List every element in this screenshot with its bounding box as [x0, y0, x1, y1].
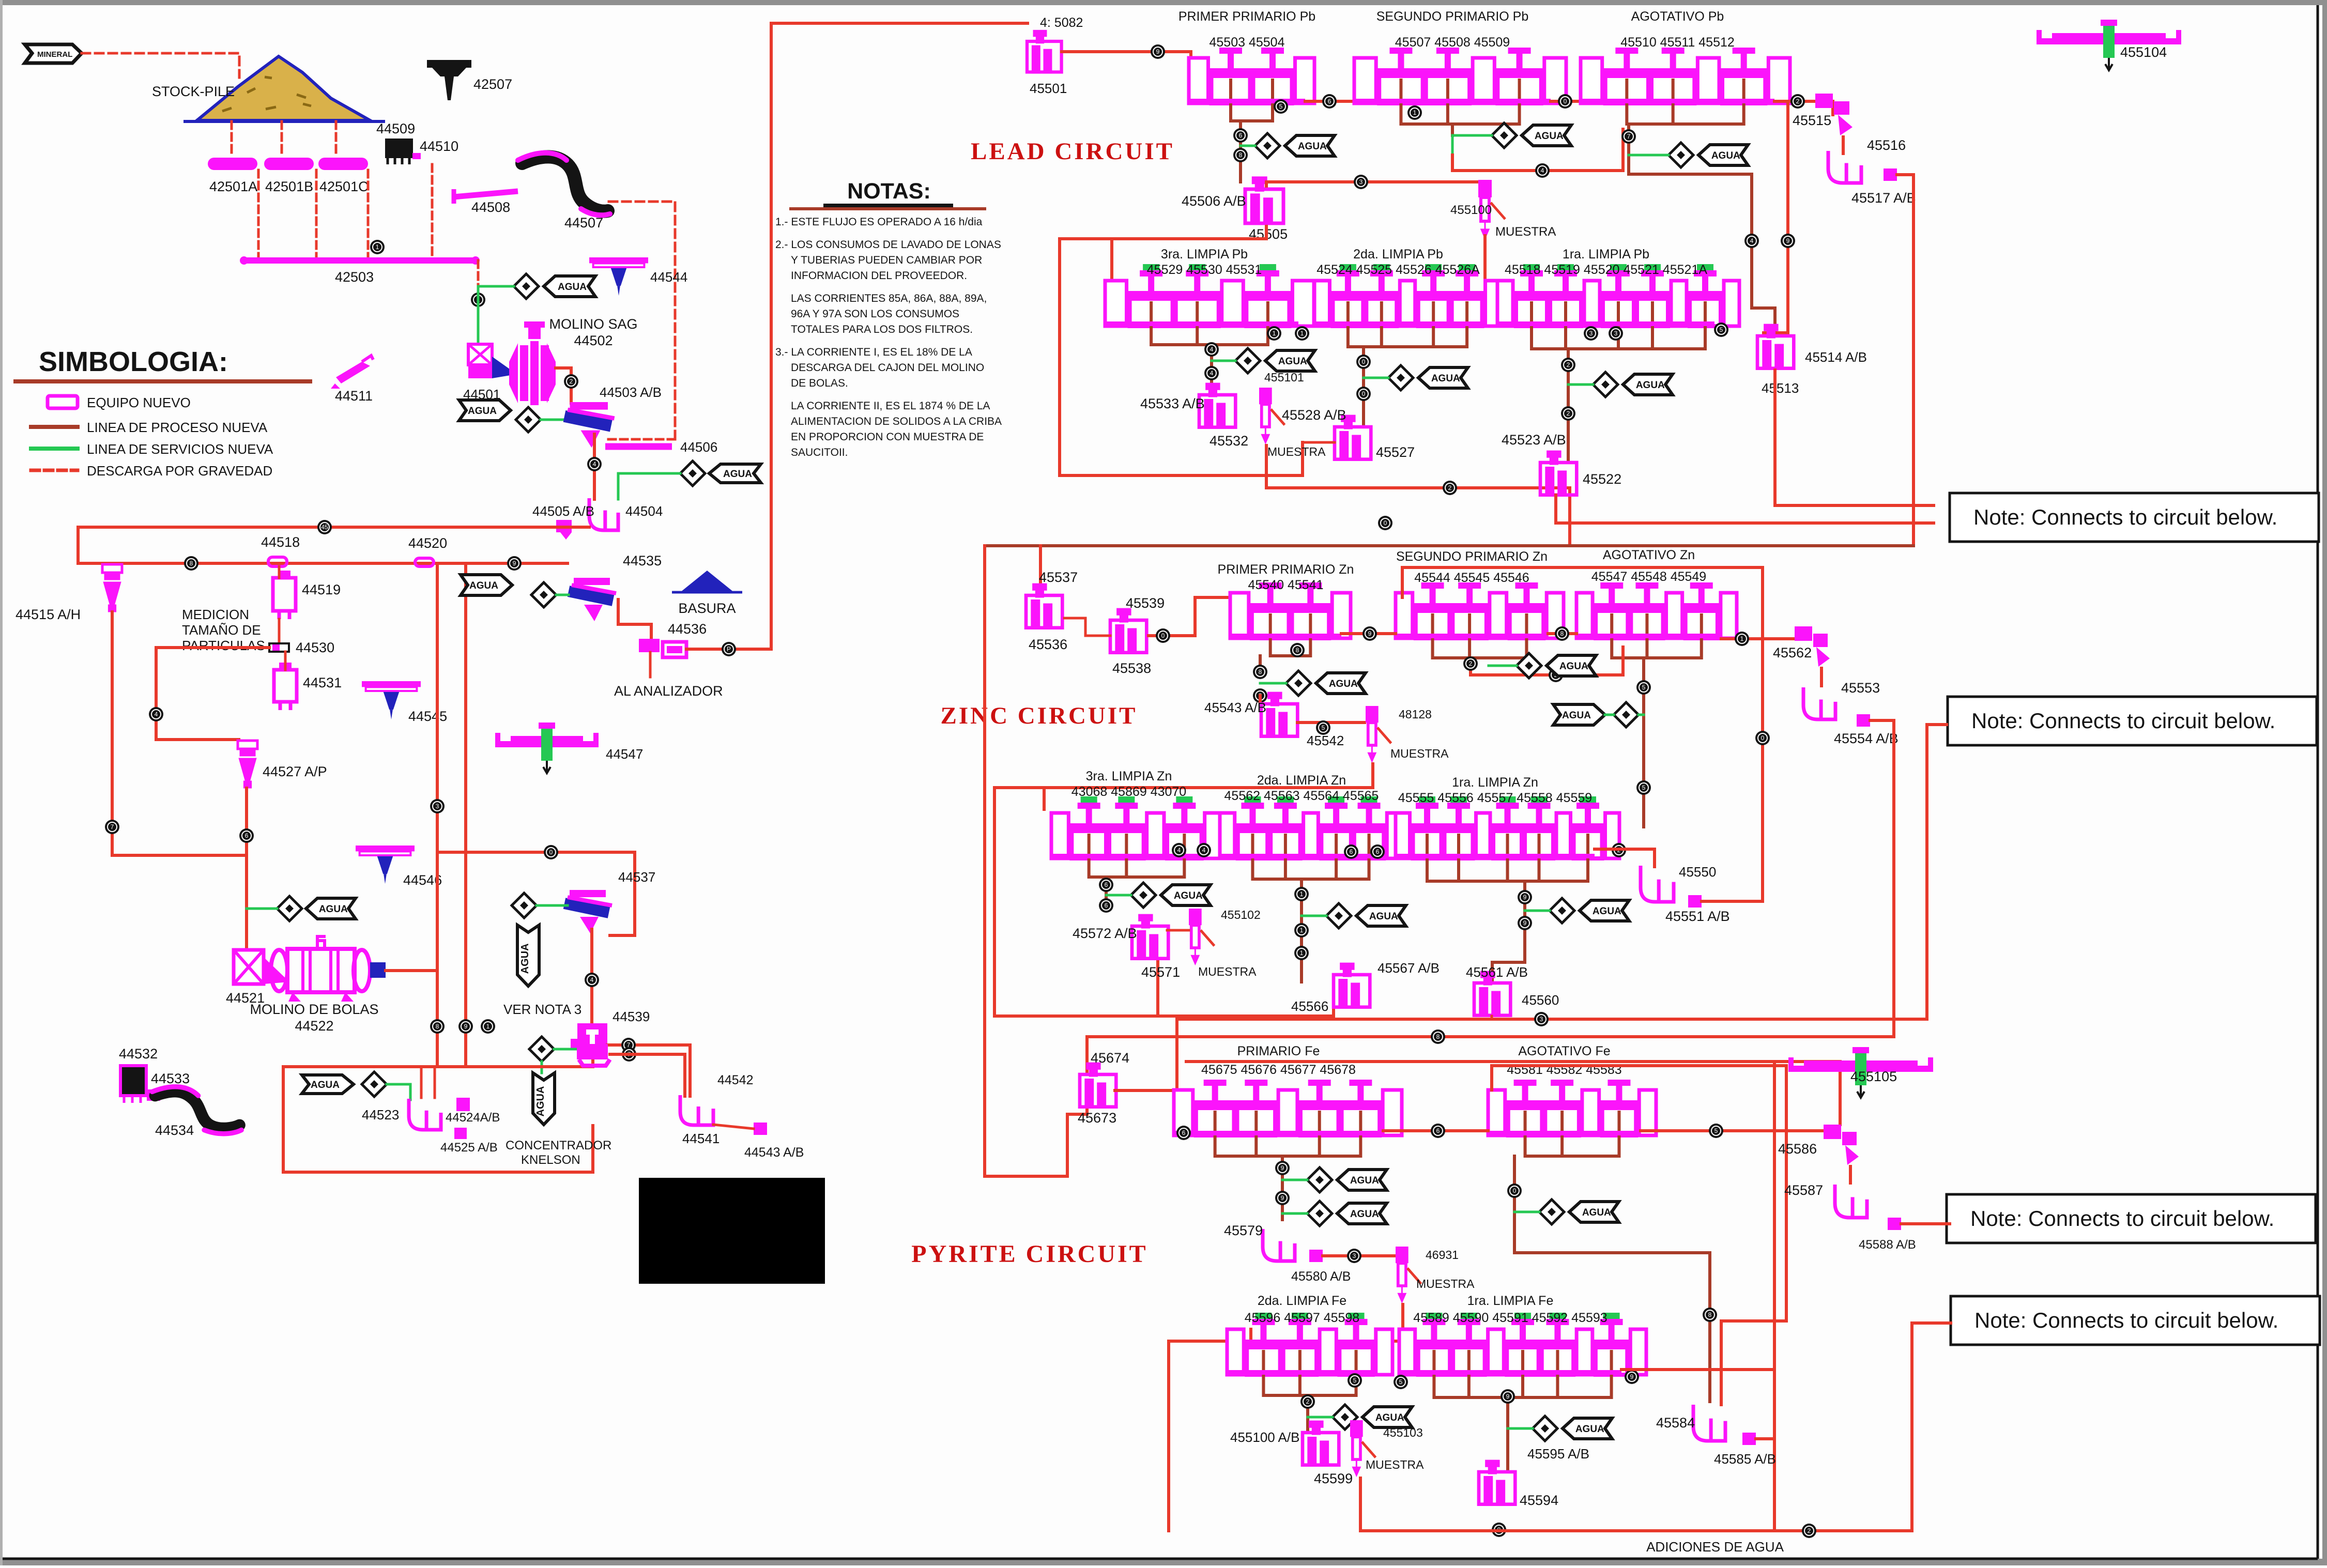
- spreader 455105: [1788, 1047, 1933, 1098]
- svg-text:AGUA: AGUA: [1562, 710, 1591, 721]
- pump 45538: [1110, 610, 1146, 653]
- svg-text:MUESTRA: MUESTRA: [1416, 1277, 1475, 1290]
- svg-text:2: 2: [1448, 484, 1452, 491]
- svg-text:AGUA: AGUA: [1559, 661, 1588, 672]
- wire 1raFe down: [1506, 1397, 1509, 1470]
- wire 2daFe down: [1306, 1395, 1309, 1432]
- node z1: [1156, 628, 1170, 643]
- wire green agua G: [1260, 682, 1286, 685]
- wire 44536 down: [649, 652, 652, 677]
- node po2: [1394, 1375, 1408, 1389]
- svg-text:0: 0: [1362, 358, 1366, 365]
- wire sampler 48128 down: [994, 764, 1373, 1016]
- node zg3: [1253, 688, 1267, 703]
- wire bankH-I: [1548, 632, 1576, 635]
- svg-text:45561 A/B: 45561 A/B: [1466, 964, 1528, 980]
- flotation bank 45510-45512: [1581, 48, 1790, 104]
- node pp1: [1625, 1370, 1639, 1384]
- manifold bank H: [1433, 638, 1527, 658]
- svg-text:44539: 44539: [613, 1009, 650, 1024]
- svg-text:4: 4: [1750, 237, 1754, 244]
- wire bankO feed: [1249, 1329, 1252, 1341]
- tank 45584: [1693, 1405, 1725, 1441]
- svg-text:Note: Connects to circuit belo: Note: Connects to circuit below.: [1974, 1308, 2278, 1332]
- svg-text:AGUA: AGUA: [723, 469, 752, 480]
- wire knelson loop: [283, 1054, 593, 1067]
- wire green aguaB: [1452, 135, 1492, 155]
- wire zinc segundo loop: [1402, 567, 1763, 899]
- manifold bank J: [1089, 858, 1185, 877]
- wire bankA manifold down: [1239, 130, 1242, 182]
- svg-text:8: 8: [1708, 1311, 1712, 1318]
- node k: [622, 1047, 636, 1062]
- svg-text:9: 9: [1156, 48, 1160, 55]
- svg-text:AGUA: AGUA: [1298, 141, 1327, 152]
- svg-text:1.- ESTE FLUJO ES OPERADO A 16: 1.- ESTE FLUJO ES OPERADO A 16 h/dia: [775, 216, 983, 228]
- wire zinc left drop: [985, 546, 1087, 1176]
- svg-text:LEAD CIRCUIT: LEAD CIRCUIT: [971, 138, 1174, 165]
- svg-text:45585 A/B: 45585 A/B: [1714, 1451, 1776, 1467]
- node ee2: [1356, 387, 1371, 401]
- legend equip symbol: [48, 396, 78, 408]
- node zk2: [1370, 844, 1385, 859]
- svg-text:44522: 44522: [295, 1018, 333, 1034]
- wire green agua H: [1489, 665, 1517, 667]
- flag AGUA bolas: [306, 898, 356, 919]
- chute 44533: [147, 1089, 160, 1101]
- wire pyriteM manifold down: [1281, 1156, 1284, 1220]
- flag AGUA pump: [709, 464, 761, 483]
- wire dashed 44507 to mill loop: [609, 202, 675, 439]
- svg-text:45522: 45522: [1583, 471, 1621, 487]
- wire zincH manifold tail: [1471, 647, 1623, 675]
- node 94: [1151, 44, 1165, 59]
- wire green knelson: [387, 1084, 410, 1100]
- valve diamond 44537: [512, 893, 537, 918]
- svg-text:455102: 455102: [1221, 908, 1261, 921]
- wire 45674 feed: [1085, 1037, 1089, 1074]
- wire green 2daZn: [1302, 915, 1326, 917]
- node pr2: [1501, 1389, 1515, 1404]
- node mn: [1431, 1124, 1445, 1138]
- wire bankN out: [1641, 1129, 1824, 1132]
- cyclone 44515 A/H: [102, 564, 122, 612]
- wire bankB to bankC: [1551, 100, 1581, 103]
- wire lead right column a: [1752, 174, 1775, 336]
- node 6: [239, 828, 254, 843]
- svg-text:AGUA: AGUA: [519, 943, 531, 974]
- node pm2: [1275, 1191, 1290, 1205]
- svg-text:44542: 44542: [717, 1073, 754, 1087]
- svg-text:45580 A/B: 45580 A/B: [1291, 1269, 1351, 1284]
- flag AGUA P: [1563, 1418, 1612, 1439]
- svg-text:44503 A/B: 44503 A/B: [600, 385, 662, 400]
- svg-text:1: 1: [1413, 109, 1417, 116]
- flag AGUA B: [1522, 125, 1571, 146]
- screen 44535: [569, 578, 616, 621]
- valve diamond 44535: [531, 582, 556, 607]
- svg-text:9: 9: [513, 560, 516, 567]
- svg-text:45586: 45586: [1778, 1141, 1817, 1157]
- svg-text:AL ANALIZADOR: AL ANALIZADOR: [614, 683, 723, 699]
- svg-text:9: 9: [1523, 894, 1527, 901]
- wire 45551 right up: [1702, 900, 1763, 903]
- svg-text:0: 0: [1564, 98, 1567, 105]
- svg-text:0: 0: [1362, 390, 1366, 397]
- svg-text:5: 5: [1642, 684, 1646, 691]
- node zk1: [1344, 844, 1358, 859]
- svg-text:45554 A/B: 45554 A/B: [1834, 731, 1899, 746]
- svg-text:PRIMARIO Fe: PRIMARIO Fe: [1237, 1044, 1320, 1058]
- wire zinc 1ra down: [1492, 881, 1525, 982]
- svg-text:6: 6: [1436, 1127, 1440, 1134]
- node ee1: [1356, 355, 1371, 369]
- wire dashed mineral to stockpile: [82, 53, 239, 78]
- pump 45562: [1795, 626, 1830, 687]
- svg-text:45542: 45542: [1307, 733, 1344, 748]
- wire dashed 42501C down: [367, 170, 370, 258]
- feed box 44501: [468, 344, 517, 378]
- svg-text:45551 A/B: 45551 A/B: [1665, 909, 1730, 924]
- wire knelson loop left: [283, 1067, 593, 1172]
- svg-text:2: 2: [1796, 98, 1800, 105]
- svg-text:9: 9: [1786, 237, 1790, 244]
- svg-text:8: 8: [436, 1023, 439, 1030]
- wire green 3raZn: [1106, 894, 1131, 897]
- pump 45522: [1540, 452, 1576, 495]
- svg-text:6: 6: [245, 832, 249, 839]
- svg-text:EN PROPORCION CON MUESTRA DE: EN PROPORCION CON MUESTRA DE: [791, 431, 984, 443]
- concentrator 44540: [577, 1044, 610, 1066]
- svg-text:3: 3: [1589, 330, 1593, 337]
- valve diamond agua N: [1539, 1200, 1564, 1224]
- svg-text:AGUA: AGUA: [311, 1080, 340, 1090]
- device 44531: [274, 663, 297, 710]
- svg-text:NOTAS:: NOTAS:: [847, 179, 931, 204]
- svg-text:AGUA: AGUA: [558, 282, 587, 293]
- valve diamond agua 3raZn: [1131, 883, 1156, 908]
- node 1b: [471, 293, 485, 307]
- node a1: [1274, 99, 1288, 114]
- flag AGUA 2da: [1418, 367, 1468, 388]
- flag AGUA N: [1569, 1202, 1619, 1222]
- svg-text:44518: 44518: [261, 534, 300, 550]
- wire green agua N: [1514, 1211, 1539, 1213]
- svg-text:AGUA: AGUA: [1278, 356, 1307, 367]
- node m0: [1176, 1126, 1191, 1140]
- wire SAG discharge: [556, 368, 571, 403]
- device 44539: [571, 1023, 607, 1057]
- node b3: [1535, 163, 1550, 178]
- wire 44527 underflow to ball mill: [245, 788, 248, 950]
- node io: [1735, 632, 1749, 646]
- sampler 455101: [1259, 388, 1284, 442]
- wire 44543 out: [713, 1125, 754, 1129]
- wire pyrite bottom: [1360, 1323, 1951, 1531]
- svg-text:4: 5082: 4: 5082: [1040, 16, 1083, 30]
- wire green agua pump: [618, 473, 680, 499]
- wire bankB manifold down: [1451, 124, 1454, 135]
- svg-text:1: 1: [486, 1023, 490, 1030]
- wire 45505 to sampler: [1266, 182, 1477, 186]
- flotation bank 45555-45559: [1396, 796, 1619, 859]
- svg-text:45589 45590 45591 45592 4559: 45589 45590 45591 45592 45593: [1413, 1311, 1607, 1325]
- svg-text:3ra. LIMPIA Zn: 3ra. LIMPIA Zn: [1086, 769, 1172, 783]
- node 9b: [458, 1019, 473, 1034]
- svg-text:44515 A/H: 44515 A/H: [16, 607, 81, 622]
- node v: [585, 973, 599, 987]
- node 45: [317, 520, 332, 534]
- wire bankA to bankB: [1305, 100, 1354, 103]
- pump 45585 A/B: [1742, 1433, 1756, 1445]
- wire 44539 out: [607, 1045, 690, 1096]
- svg-text:AGUA: AGUA: [1350, 1175, 1379, 1186]
- manifold bank B: [1401, 103, 1519, 124]
- wire green 1raZn: [1525, 910, 1550, 912]
- svg-text:3: 3: [1540, 1016, 1543, 1023]
- svg-text:Note: Connects to circuit belo: Note: Connects to circuit below.: [1970, 1206, 2274, 1231]
- tank 44504: [589, 498, 618, 530]
- node no: [1709, 1124, 1723, 1138]
- node pn2: [1703, 1308, 1717, 1322]
- svg-text:45673: 45673: [1078, 1110, 1116, 1126]
- flotation bank 45581-45583: [1488, 1080, 1656, 1136]
- flag AGUA M2: [1337, 1203, 1387, 1224]
- node zh1: [1463, 656, 1478, 671]
- svg-text:SIMBOLOGIA:: SIMBOLOGIA:: [39, 346, 228, 377]
- tank 45516: [1828, 151, 1861, 183]
- node 8b: [430, 1019, 445, 1034]
- svg-text:45528 A/B: 45528 A/B: [1282, 407, 1346, 423]
- svg-text:45567 A/B: 45567 A/B: [1377, 960, 1440, 976]
- valve diamond knelson: [362, 1072, 387, 1097]
- pump 45501: [1027, 32, 1062, 72]
- svg-text:4: 4: [1541, 167, 1544, 174]
- svg-text:44507: 44507: [564, 215, 603, 230]
- svg-text:PARTICULAS: PARTICULAS: [182, 638, 265, 653]
- flotation bank 45589-45593: [1399, 1313, 1646, 1375]
- wire bankB tail: [1452, 129, 1623, 171]
- node zm1: [1099, 878, 1113, 892]
- svg-text:AGOTATIVO Pb: AGOTATIVO Pb: [1631, 9, 1724, 24]
- pump 455100 A/B: [1303, 1422, 1339, 1465]
- svg-text:0: 0: [1513, 1187, 1517, 1194]
- svg-text:45532: 45532: [1210, 433, 1248, 449]
- wire 45543 to sampler: [1297, 721, 1365, 724]
- node 1 on 42503: [370, 240, 385, 254]
- legend gravity line: [31, 469, 78, 472]
- feeder 42501C: [318, 158, 368, 170]
- valve diamond agua H: [1517, 653, 1541, 678]
- svg-text:AGUA: AGUA: [535, 1086, 546, 1117]
- svg-text:BASURA: BASURA: [678, 601, 736, 616]
- wire sampler down to 1ra bank: [1483, 236, 1487, 289]
- node 4: [587, 457, 602, 471]
- wire 3ra out: [1210, 345, 1213, 392]
- node pf2: [1431, 1029, 1445, 1044]
- conveyor 44507: [518, 153, 610, 216]
- conveyor 44508: [454, 189, 518, 204]
- legend process line: [31, 425, 78, 429]
- node pf1: [1534, 1012, 1549, 1026]
- svg-text:AGUA: AGUA: [1535, 131, 1564, 142]
- wire zincI manifold down: [1642, 658, 1645, 827]
- device 44519: [273, 571, 296, 619]
- wire green agua screen: [541, 419, 568, 421]
- svg-text:2: 2: [1567, 361, 1570, 368]
- device 44518: [268, 557, 287, 566]
- svg-text:44537: 44537: [618, 869, 655, 885]
- svg-text:8: 8: [1296, 647, 1299, 654]
- flag AGUA screen feed: [459, 400, 511, 421]
- flotation bank 45547-45549: [1576, 582, 1737, 639]
- svg-text:4: 4: [1210, 370, 1214, 377]
- svg-text:44505 A/B: 44505 A/B: [532, 503, 594, 519]
- pump 45554 A/B: [1857, 714, 1870, 727]
- svg-text:44532: 44532: [119, 1046, 158, 1062]
- node pb2: [1802, 1524, 1816, 1538]
- svg-text:46931: 46931: [1426, 1248, 1459, 1262]
- wire pyrite top line: [1186, 1062, 1840, 1125]
- svg-text:AGOTATIVO Zn: AGOTATIVO Zn: [1603, 548, 1695, 562]
- valve diamond 44539: [529, 1037, 554, 1062]
- wire green 1ra: [1568, 383, 1593, 386]
- svg-text:45514 A/B: 45514 A/B: [1805, 349, 1867, 365]
- hopper 42507: [427, 60, 471, 100]
- svg-text:1ra. LIMPIA Fe: 1ra. LIMPIA Fe: [1467, 1294, 1554, 1308]
- flag AGUA M1: [1337, 1170, 1387, 1190]
- notas underline: [825, 204, 951, 208]
- flotation bank 45562-45565: [1220, 796, 1402, 859]
- node bc: [1558, 94, 1572, 109]
- hopper 44532: [120, 1066, 146, 1103]
- wire lead tail main: [985, 544, 1913, 547]
- svg-text:VER NOTA 3: VER NOTA 3: [503, 1002, 581, 1017]
- wire green 44539: [554, 1048, 577, 1051]
- svg-text:0: 0: [1384, 519, 1387, 527]
- node a2: [1233, 128, 1248, 143]
- wire zinc 3ra out: [1105, 877, 1108, 907]
- wire dashed feeder C: [335, 121, 338, 157]
- tank 44523: [409, 1099, 441, 1130]
- svg-text:MUESTRA: MUESTRA: [1267, 445, 1326, 458]
- wire 45537 feed: [1039, 546, 1042, 594]
- svg-text:DESCARGA POR GRAVEDAD: DESCARGA POR GRAVEDAD: [87, 463, 272, 479]
- svg-text:45555 45556 45557 45558 4555: 45555 45556 45557 45558 45559: [1398, 791, 1592, 805]
- svg-text:Y TUBERIAS PUEDEN CAMBIAR POR: Y TUBERIAS PUEDEN CAMBIAR POR: [791, 254, 982, 266]
- svg-text:AGUA: AGUA: [1711, 150, 1740, 161]
- wire 44518 to 44519: [278, 566, 281, 578]
- wire 455101 down: [1266, 445, 1570, 546]
- sampler 455103: [1350, 1420, 1375, 1475]
- svg-text:AGUA: AGUA: [319, 904, 348, 915]
- svg-text:44535: 44535: [623, 553, 662, 568]
- wire 44536 to lead circuit: [686, 23, 1028, 649]
- svg-text:3ra. LIMPIA Pb: 3ra. LIMPIA Pb: [1161, 247, 1248, 262]
- flag AGUA C: [1698, 145, 1748, 165]
- wire dashed feeder B: [281, 121, 283, 157]
- wire agotativoFe loop: [1492, 1066, 1786, 1405]
- svg-text:AGOTATIVO Fe: AGOTATIVO Fe: [1518, 1044, 1610, 1058]
- svg-text:2da. LIMPIA Pb: 2da. LIMPIA Pb: [1353, 247, 1443, 262]
- svg-text:44511: 44511: [335, 388, 373, 404]
- flag AGUA knelson: [302, 1075, 354, 1094]
- svg-text:44502: 44502: [574, 333, 613, 348]
- node zn3: [1294, 946, 1309, 960]
- node m1: [1443, 481, 1457, 495]
- svg-text:1ra. LIMPIA Pb: 1ra. LIMPIA Pb: [1563, 247, 1649, 262]
- svg-text:8: 8: [190, 560, 193, 567]
- svg-text:9: 9: [1506, 1393, 1510, 1400]
- svg-text:44547: 44547: [606, 746, 643, 762]
- wire dashed 42501B down: [315, 170, 318, 258]
- valve diamond aguaA: [1255, 133, 1280, 158]
- svg-text:8: 8: [1436, 1033, 1440, 1040]
- node dd1: [1204, 342, 1219, 357]
- svg-text:ALIMENTACION DE SOLIDOS A LA C: ALIMENTACION DE SOLIDOS A LA CRIBA: [791, 416, 1002, 427]
- sampler 45931: [1396, 1247, 1421, 1301]
- svg-text:44506: 44506: [680, 439, 717, 455]
- manifold bank F: [1532, 326, 1705, 349]
- flag AGUA 2daZn: [1356, 905, 1406, 926]
- svg-text:5: 5: [1714, 1127, 1718, 1134]
- svg-text:8: 8: [1239, 151, 1243, 159]
- node rc2: [1781, 234, 1795, 248]
- svg-text:44509: 44509: [376, 121, 415, 136]
- svg-text:2: 2: [1567, 410, 1570, 417]
- svg-text:44519: 44519: [302, 582, 341, 597]
- svg-text:ADICIONES DE AGUA: ADICIONES DE AGUA: [1646, 1539, 1784, 1555]
- flotation bank 45675-45678: [1174, 1080, 1402, 1136]
- node ab: [1322, 94, 1337, 109]
- feeder 42501B: [264, 158, 314, 170]
- wire screen underflow: [593, 434, 596, 499]
- wire 45560b out: [1491, 1016, 1493, 1019]
- svg-text:AGUA: AGUA: [468, 406, 497, 417]
- manifold bank I: [1612, 638, 1702, 658]
- wire green 2da: [1364, 377, 1388, 379]
- wire bankL out: [1595, 849, 1655, 867]
- svg-text:AGUA: AGUA: [1350, 1209, 1379, 1220]
- wire bankP out: [1621, 1368, 1774, 1371]
- pump 45527: [1335, 417, 1371, 459]
- svg-text:9: 9: [464, 1023, 468, 1030]
- manifold bank K: [1252, 858, 1369, 879]
- flag AGUA 3raZn: [1161, 885, 1211, 905]
- svg-text:MUESTRA: MUESTRA: [1390, 747, 1449, 760]
- wire green agua M2: [1282, 1212, 1307, 1215]
- svg-text:4: 4: [155, 711, 158, 718]
- svg-text:2.- LOS CONSUMOS DE LAVADO DE: 2.- LOS CONSUMOS DE LAVADO DE LONAS: [775, 239, 1001, 251]
- svg-text:DE BOLAS.: DE BOLAS.: [791, 377, 848, 389]
- pump 45580 A/B: [1309, 1250, 1323, 1262]
- svg-text:455105: 455105: [1850, 1069, 1897, 1084]
- cyclone 44527 A/P: [238, 741, 257, 788]
- svg-text:4: 4: [593, 460, 596, 468]
- sampler 455100: [1478, 180, 1505, 238]
- svg-text:4: 4: [1177, 847, 1181, 854]
- valve diamond agua P: [1533, 1416, 1557, 1441]
- node pr1: [1492, 1523, 1506, 1537]
- feeder 42501A: [208, 158, 257, 170]
- wire 45517 out: [1897, 175, 1913, 546]
- svg-text:45516: 45516: [1867, 137, 1906, 153]
- flag AGUA 44535: [461, 575, 512, 595]
- pump 45586: [1824, 1125, 1859, 1185]
- svg-text:45510 45511 45512: 45510 45511 45512: [1620, 35, 1735, 50]
- svg-text:45501: 45501: [1030, 81, 1067, 96]
- valve diamond screen: [516, 407, 541, 432]
